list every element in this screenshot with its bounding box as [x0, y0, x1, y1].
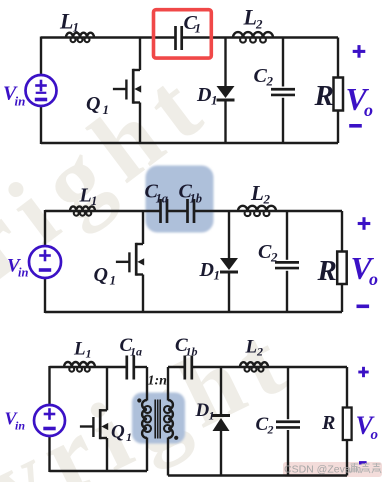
svg-text:C: C: [254, 65, 268, 87]
svg-text:1: 1: [86, 347, 92, 361]
resistor R: [343, 408, 352, 441]
svg-text:o: o: [371, 427, 379, 443]
capacitor C1: [174, 26, 177, 50]
wire: [146, 438, 148, 472]
plus sign: [353, 50, 366, 53]
svg-text:Q: Q: [86, 93, 100, 115]
wire: [167, 210, 188, 212]
svg-text:1: 1: [91, 194, 97, 208]
capacitor C1a: [125, 356, 128, 380]
svg-text:2: 2: [267, 423, 274, 437]
inductor L1: [70, 206, 95, 211]
svg-text:1: 1: [209, 409, 215, 423]
capacitor C1a: [159, 199, 162, 223]
transistor Q1: [142, 211, 144, 244]
svg-text:L: L: [73, 339, 86, 360]
svg-text:1: 1: [110, 273, 117, 288]
svg-text:1a: 1a: [130, 345, 142, 359]
source Vin: [29, 246, 61, 278]
wire: [194, 210, 342, 212]
svg-text:1:n: 1:n: [148, 374, 168, 389]
plus sign: [358, 371, 368, 374]
minus sign: [349, 124, 362, 128]
svg-text:R: R: [321, 412, 335, 434]
wire: [48, 366, 50, 406]
inductor L2: [238, 206, 276, 211]
capacitor C2: [286, 211, 288, 260]
wire: [337, 38, 339, 79]
svg-text:1b: 1b: [190, 192, 203, 206]
resistor R: [337, 252, 347, 285]
plus sign: [358, 222, 371, 225]
transformer core: [154, 400, 156, 439]
wire: [44, 210, 46, 247]
transistor Q1: [139, 38, 141, 71]
svg-text:in: in: [15, 94, 26, 109]
svg-text:1: 1: [211, 93, 218, 108]
transistor Q1: [106, 367, 108, 410]
watermark badge background: [283, 462, 382, 477]
svg-text:L: L: [245, 337, 258, 358]
svg-text:Q: Q: [94, 264, 108, 286]
svg-text:1b: 1b: [186, 345, 198, 359]
wire: [341, 211, 343, 252]
svg-text:Q: Q: [111, 422, 125, 443]
svg-text:L: L: [79, 185, 92, 207]
minus sign: [359, 461, 367, 464]
wire: [50, 366, 127, 368]
svg-text:1: 1: [126, 430, 132, 444]
svg-text:L: L: [243, 5, 257, 30]
highlight blue box (transformer): [132, 393, 185, 444]
svg-text:1a: 1a: [156, 192, 169, 206]
svg-text:1: 1: [195, 21, 202, 36]
svg-text:L: L: [59, 9, 73, 34]
svg-text:1: 1: [103, 102, 110, 117]
svg-text:2: 2: [255, 17, 263, 32]
wire: [40, 37, 42, 76]
svg-text:C: C: [258, 241, 272, 263]
svg-text:1: 1: [73, 20, 80, 35]
capacitor C1b: [186, 199, 189, 223]
wire: [134, 366, 147, 368]
svg-text:R: R: [314, 80, 334, 112]
svg-text:D: D: [195, 400, 210, 421]
svg-text:2: 2: [263, 192, 271, 207]
svg-text:o: o: [364, 100, 373, 120]
wire: [346, 367, 348, 408]
wire: [182, 36, 338, 38]
wire: [45, 210, 161, 212]
transformer primary: [142, 400, 147, 438]
inductor L1: [64, 362, 95, 367]
inductor L2: [233, 32, 273, 37]
svg-text:D: D: [196, 84, 211, 106]
wire: [192, 366, 347, 368]
transformer dot secondary: [174, 436, 178, 440]
svg-text:1: 1: [214, 268, 221, 283]
wire: [50, 470, 148, 472]
svg-text:o: o: [369, 269, 378, 289]
transformer dot primary: [137, 398, 141, 402]
capacitor C2: [282, 38, 284, 87]
svg-text:2: 2: [266, 74, 274, 89]
inductor L1: [66, 33, 94, 38]
svg-text:R: R: [317, 255, 337, 287]
transformer secondary: [168, 400, 173, 438]
highlight blue box: [146, 166, 214, 233]
svg-text:2: 2: [270, 250, 278, 265]
capacitor C1b: [183, 356, 186, 380]
source Vin: [26, 75, 57, 106]
wire: [41, 142, 338, 144]
inductor L2: [240, 362, 268, 367]
diode D1: [220, 367, 222, 416]
svg-text:L: L: [250, 181, 264, 205]
minus sign: [357, 304, 370, 308]
wire: [41, 36, 176, 38]
wire: [168, 366, 185, 368]
svg-text:in: in: [18, 266, 28, 280]
svg-text:D: D: [199, 259, 214, 281]
diode D1: [228, 211, 230, 259]
diode D1: [224, 38, 226, 88]
svg-text:CSDN @Zevalin: CSDN @Zevalin: [284, 464, 361, 476]
svg-text:2: 2: [256, 345, 263, 359]
source Vin: [34, 405, 65, 436]
resistor R: [334, 78, 344, 111]
highlight red box: [154, 10, 212, 58]
wire: [168, 474, 347, 476]
wire: [45, 311, 342, 313]
capacitor C2: [287, 367, 289, 419]
svg-text:in: in: [15, 419, 25, 433]
